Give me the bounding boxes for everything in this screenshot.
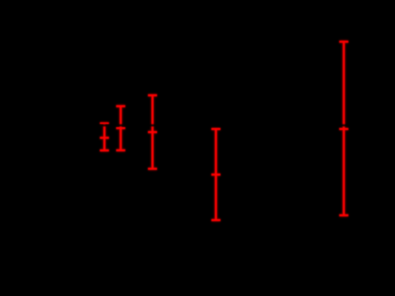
error bar 1 bottom cap (glow) xyxy=(100,149,109,152)
error bar 3 bottom cap (glow) xyxy=(148,167,157,170)
error bar 1 whisker (glow) xyxy=(103,123,106,150)
error bar 3 top cap (core) xyxy=(148,94,157,96)
black axis line overlay at y=125 xyxy=(60,124,395,126)
error bar 4 whisker (core) xyxy=(215,129,217,220)
error bar 2 bottom cap (core) xyxy=(116,149,125,151)
error bar 4 whisker (glow) xyxy=(214,129,217,220)
error bar 2 top cap (core) xyxy=(116,105,125,107)
error bar 2 center marker (glow) xyxy=(116,127,125,130)
error bar 1 center marker (core) xyxy=(100,137,109,139)
error bar 3 whisker (glow) xyxy=(151,95,154,169)
error bar 3 center marker (core) xyxy=(148,131,157,133)
error bar 1 top cap (core) xyxy=(100,122,109,124)
error bar 4 center marker (core) xyxy=(211,174,220,176)
error bar 5 center marker (core) xyxy=(339,128,348,130)
error bar 3 center marker (glow) xyxy=(148,131,157,134)
error bar 4 bottom cap (core) xyxy=(211,219,220,221)
error bar 2 whisker (glow) xyxy=(119,106,122,150)
error bar 2 center marker (core) xyxy=(116,127,125,129)
error bar 1 top cap (glow) xyxy=(100,122,109,125)
error bar 3 whisker (core) xyxy=(152,95,154,169)
error bar 2 top cap (glow) xyxy=(116,105,125,108)
error bar 1 whisker (core) xyxy=(103,123,105,150)
error bar 3 bottom cap (core) xyxy=(148,168,157,170)
error bar 2 whisker (core) xyxy=(120,106,122,150)
error bar 5 center marker (glow) xyxy=(339,128,348,131)
error bar 5 top cap (glow) xyxy=(339,40,348,43)
error bar 5 whisker (core) xyxy=(343,42,345,216)
error bar 5 bottom cap (core) xyxy=(339,214,348,216)
error bar 5 bottom cap (glow) xyxy=(339,214,348,217)
error bar 4 top cap (glow) xyxy=(211,128,220,131)
error bar 4 center marker (glow) xyxy=(211,173,220,176)
error bar 1 center marker (glow) xyxy=(100,136,109,139)
error bar 1 bottom cap (core) xyxy=(100,149,109,151)
error bar 3 top cap (glow) xyxy=(148,94,157,97)
error bar 4 top cap (core) xyxy=(211,128,220,130)
error bar 5 whisker (glow) xyxy=(342,42,345,216)
error bar 2 bottom cap (glow) xyxy=(116,149,125,152)
error bar 4 bottom cap (glow) xyxy=(211,219,220,222)
error bar 5 top cap (core) xyxy=(339,41,348,43)
